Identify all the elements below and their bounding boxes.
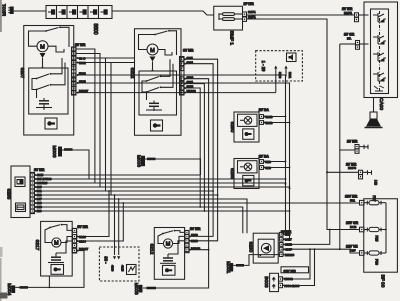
svg-text:2V BA: 2V BA — [259, 155, 270, 159]
svg-text:BF 00: BF 00 — [380, 275, 386, 288]
lock motor unit 6255 — [229, 159, 259, 189]
junction dots bus — [212, 190, 214, 192]
lamp switch 4 (CA00) — [373, 72, 386, 81]
svg-text:8V MR: 8V MR — [75, 43, 86, 47]
svg-text:5V MR: 5V MR — [190, 227, 201, 231]
6207 antenna — [40, 53, 46, 68]
battery junction box BB00 — [46, 6, 112, 35]
roof unit CA00 — [364, 2, 398, 110]
6255 pictogram — [243, 175, 254, 185]
svg-text:M6202: M6202 — [187, 89, 197, 93]
6207 inner switch block — [29, 58, 68, 114]
30- pictogram — [127, 265, 137, 275]
30- arrow 2 — [117, 256, 120, 259]
6202 lock pictogram — [151, 120, 163, 131]
wire BMF1 to CA00 connector — [247, 14, 355, 16]
ground M003 (left) — [51, 146, 73, 158]
svg-text:M: M — [166, 242, 171, 248]
scan edge marks — [0, 0, 2, 32]
fuse F30 — [364, 251, 386, 265]
svg-text:2MF1: 2MF1 — [248, 10, 256, 14]
bus line 62B to 6230 — [35, 207, 243, 233]
bus line 4625 — [35, 174, 201, 176]
6202 buzzer capacitor — [146, 101, 162, 112]
wire V2 riser to 2V GR — [340, 43, 356, 45]
6207 cascade wires down — [76, 49, 95, 183]
wire 6230 pin3 to BOB line — [283, 230, 330, 245]
ground M003 (second, mid) — [136, 155, 156, 167]
6207 top switch — [45, 26, 69, 47]
svg-text:BOB: BOB — [350, 225, 356, 229]
BF00 pin 1 12V MR 501 — [345, 195, 364, 205]
ground M003 (bottom) — [133, 283, 156, 295]
svg-text:6213: 6213 — [191, 233, 198, 237]
wire M001 to BB00 — [14, 10, 46, 12]
connector 2V MR BMF8 (HS) — [346, 162, 378, 185]
6212 lock pictogram — [163, 265, 176, 275]
junction dots on V risers — [285, 116, 287, 118]
drop wire to 30- arrow 2 — [118, 199, 120, 255]
lamp switch 1 (CA00) — [373, 13, 386, 22]
bus line 628 long to BF00 — [35, 202, 360, 204]
bus line 627 to 6230 — [35, 199, 248, 233]
svg-text:B003: B003 — [263, 276, 269, 288]
6212 motor M — [158, 234, 185, 249]
6212 connector strip — [185, 227, 201, 253]
svg-text:4625: 4625 — [121, 265, 125, 272]
svg-text:6217: 6217 — [34, 240, 40, 251]
svg-text:BMF8: BMF8 — [348, 166, 356, 170]
6212 buzzer capacitor — [160, 241, 185, 263]
drop wire to 6217 pin 6214 — [77, 191, 109, 237]
6207 wire 6233 label — [77, 82, 79, 84]
6207 long wire 6233 — [76, 83, 290, 239]
6250 pictogram — [243, 129, 254, 139]
6207 motor M — [29, 31, 65, 52]
6217 top switch — [49, 224, 71, 231]
svg-text:M: M — [150, 48, 155, 54]
junction branch to connector 2V MR BMF8 — [326, 171, 328, 173]
svg-text:BMF1: BMF1 — [344, 11, 352, 15]
svg-text:6230: 6230 — [247, 242, 253, 253]
6235 pictogram 1 — [15, 177, 25, 187]
wire BMF1 down right column V1 — [247, 19, 360, 230]
6212 top switch — [162, 230, 185, 235]
svg-text:5V MR: 5V MR — [78, 225, 89, 229]
drop wire to 30- arrow 1 — [114, 195, 116, 255]
svg-text:6203: 6203 — [191, 239, 198, 243]
bus line 629/626 — [35, 182, 286, 184]
connector 2V MR BMF1 (CA00) — [342, 7, 369, 22]
6207 buzzer capacitor — [36, 98, 52, 110]
wire M004 to 6217 — [15, 251, 84, 288]
6207 wire M6207 label — [77, 92, 79, 94]
6250 connector — [259, 108, 273, 125]
lamp switch 3 (CA00) — [373, 52, 386, 61]
svg-text:6202: 6202 — [129, 68, 135, 79]
svg-text:M003: M003 — [133, 283, 139, 295]
6202 antenna — [150, 57, 156, 71]
svg-text:8V MR: 8V MR — [34, 168, 45, 172]
interior lamp symbol — [365, 112, 383, 128]
bus line 621 — [35, 190, 214, 192]
svg-text:M: M — [40, 45, 45, 51]
riser M004 to 6217 box — [48, 276, 50, 287]
6217 connector strip — [72, 225, 88, 253]
wire M001 to 6230 pin 5 — [233, 255, 279, 266]
door lock unit 6217 — [34, 221, 72, 276]
svg-text:6235: 6235 — [6, 189, 12, 200]
svg-text:6204: 6204 — [79, 239, 86, 243]
6207 long wire 5232 — [76, 75, 286, 234]
riser -29 to M line — [275, 77, 277, 93]
connector 2V MR (HS upper) — [347, 140, 368, 154]
lamp switch extra marks — [374, 86, 384, 91]
svg-text:M003: M003 — [51, 146, 57, 158]
svg-text:6212: 6212 — [149, 244, 155, 255]
ground M001 (top left) — [2, 4, 14, 16]
fuse F25 — [364, 227, 386, 241]
6202 top switch — [154, 30, 176, 55]
30- arrow 1 — [113, 256, 116, 259]
door lock unit 6207 — [19, 26, 74, 136]
svg-text:5231: 5231 — [288, 72, 292, 79]
svg-text:M003: M003 — [136, 155, 142, 167]
dashed option box -29 — [256, 51, 303, 81]
wire B003 pin1 riser to A3F line — [283, 249, 311, 279]
svg-text:CA00: CA00 — [378, 98, 384, 110]
wire 6230 pin4 to BF00 F30 — [283, 249, 360, 253]
svg-text:M001: M001 — [2, 4, 8, 16]
riser -29 arrow2 down V — [285, 75, 287, 77]
svg-text:A3F: A3F — [350, 249, 356, 253]
bus line 622 — [35, 178, 286, 180]
bus line 625 — [35, 186, 290, 188]
wire BB00 to BMF1 — [112, 11, 214, 15]
6217 buzzer capacitor — [48, 241, 72, 263]
svg-text:30 -: 30 - — [104, 256, 109, 264]
6250 wires to risers — [264, 116, 286, 118]
svg-text:8800: 8800 — [92, 23, 98, 34]
6255 connector — [259, 155, 271, 170]
ground M004 — [6, 283, 28, 295]
svg-text:F25: F25 — [375, 236, 379, 242]
label box 12V MR — [281, 267, 309, 273]
svg-text:2F MR: 2F MR — [244, 2, 255, 6]
svg-text:HS: HS — [374, 180, 378, 186]
6235 pictogram 2 — [16, 203, 26, 212]
fuse F27 — [364, 196, 386, 205]
svg-text:HA: HA — [347, 37, 351, 41]
drop wire to 6217 pin 6204 — [77, 203, 123, 241]
6202 wire 6201 — [184, 63, 186, 65]
6217 lock pictogram — [51, 265, 64, 275]
svg-text:2V BA: 2V BA — [259, 108, 270, 112]
6202 wire 6206 — [184, 78, 186, 80]
wire M003 U loop to 6235 — [35, 150, 90, 179]
svg-text:6255: 6255 — [229, 168, 235, 179]
-29 speaker pictogram — [287, 53, 297, 62]
6207 connector strip — [72, 43, 86, 95]
6230 connector pins — [279, 230, 294, 257]
dashed feed box 30- — [99, 247, 139, 281]
door lock unit 6212 — [149, 228, 185, 280]
fuse box BMF1 — [214, 2, 256, 45]
6207 ground wire M line — [76, 92, 276, 94]
ground M001 (lower, near 6230) — [225, 261, 245, 273]
svg-text:501: 501 — [350, 199, 355, 203]
svg-text:6250: 6250 — [229, 122, 235, 133]
6207 wire 6202 label — [77, 62, 79, 64]
corner mark bottom left — [0, 247, 8, 299]
svg-text:8V MR: 8V MR — [183, 49, 194, 53]
6235 connector strip — [30, 168, 45, 214]
fuse box BF00 — [364, 199, 398, 272]
battery connector B003 — [263, 269, 300, 291]
receiver unit 6230 — [247, 233, 278, 263]
svg-text:F30: F30 — [375, 259, 379, 265]
control unit 6235 — [6, 166, 31, 218]
svg-text:BMF 1: BMF 1 — [229, 31, 235, 45]
BF00 pin 3 12V VE A3F — [346, 245, 364, 256]
BF00 pin 2 13V GR BOB — [346, 221, 364, 232]
lock motor unit 6250 — [229, 112, 259, 142]
svg-text:M6230: M6230 — [285, 253, 295, 257]
bus line 620 — [35, 210, 290, 212]
6217 motor M — [45, 228, 72, 248]
svg-text:F27: F27 — [372, 196, 376, 202]
svg-text:6207: 6207 — [19, 68, 25, 79]
svg-text:M6006: M6006 — [147, 286, 155, 290]
svg-text:4630: 4630 — [111, 265, 115, 272]
6255 wires to risers — [264, 161, 286, 163]
6202 connector strip — [180, 49, 194, 96]
svg-text:6214: 6214 — [79, 235, 86, 239]
-29 feed arrow 2 — [284, 66, 292, 79]
6207 wire 5232 label — [77, 74, 79, 76]
-29 feed arrow 1 — [274, 66, 282, 79]
wire B003 pin2 riser — [283, 249, 315, 285]
svg-text:M: M — [54, 241, 59, 247]
BF00 internal bus — [385, 203, 387, 253]
6235 wire labels — [35, 173, 52, 213]
svg-text:5230: 5230 — [278, 72, 282, 79]
6207 wire 62C label — [77, 57, 79, 59]
6202 inner switch block — [139, 59, 177, 115]
6202 wire 6261 — [184, 83, 186, 85]
connector 2V GR (CA00) — [344, 33, 369, 50]
door lock unit 6202 — [129, 29, 181, 136]
interior lamp wire down from CA00 — [373, 98, 375, 113]
6207 lock pictogram — [45, 118, 57, 129]
6202 wire M6202 — [184, 92, 186, 94]
svg-text:2V MR: 2V MR — [347, 140, 358, 144]
lamp switch 2 (CA00) — [373, 35, 386, 44]
bus line 623 — [35, 194, 218, 196]
wire 6212 M to ground riser — [189, 249, 209, 251]
6202 wire 6208 — [184, 87, 186, 89]
svg-text:1 - 29: 1 - 29 — [261, 61, 266, 72]
svg-text:M001: M001 — [225, 261, 231, 273]
wire M003 mid to bus — [145, 159, 201, 175]
6202 motor M — [139, 35, 173, 56]
6202 wire 6211 — [184, 58, 186, 60]
